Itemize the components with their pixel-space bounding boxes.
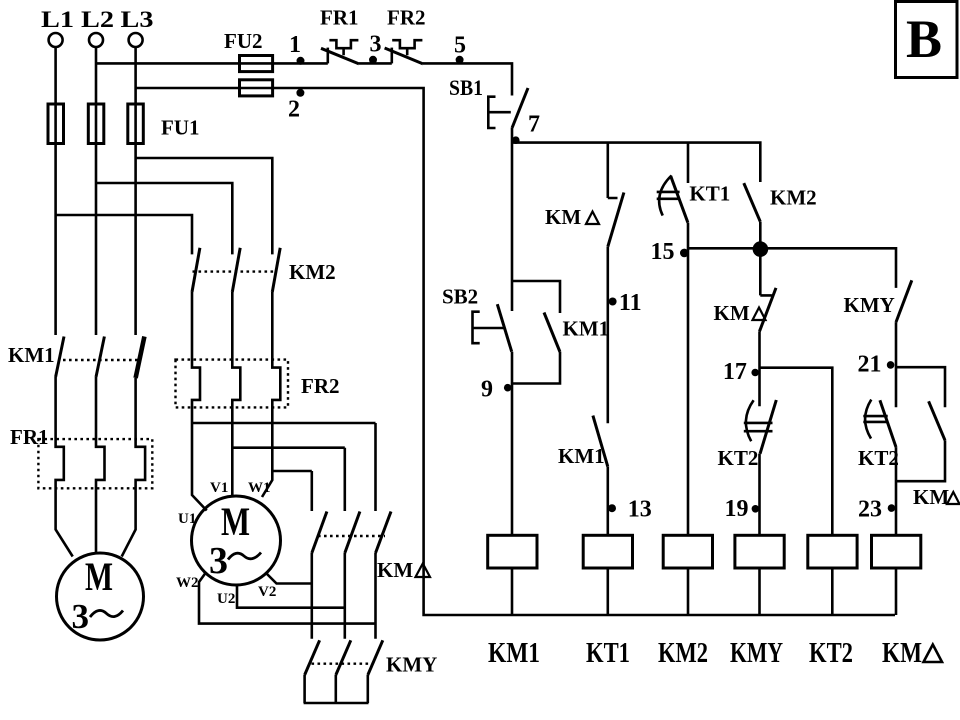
- node 15 dot: [680, 249, 689, 258]
- wire interlock to KM1 contact: [606, 247, 609, 424]
- contact KM-delta interlock blade (NC): [608, 193, 624, 247]
- wire KT1 contact to KM2 coil: [687, 223, 690, 536]
- contact KM1 holding blade: [544, 313, 560, 353]
- coil KT2: [808, 535, 857, 568]
- svg-text:9: 9: [481, 377, 493, 403]
- wire KT2 right contact to KM-delta coil: [895, 447, 898, 535]
- svg-text:3: 3: [72, 597, 90, 636]
- pushbutton SB2 rod: [473, 327, 505, 330]
- node 21 dot: [887, 361, 895, 369]
- contactor KM2 pole 1 blade: [192, 248, 200, 292]
- node 7 dot: [512, 136, 520, 144]
- svg-text:SB2: SB2: [442, 285, 478, 309]
- motor M2 tilde: [228, 553, 261, 560]
- motor M1 tilde: [90, 610, 123, 617]
- node 17 dot: [751, 369, 759, 377]
- contact KT1 delayed blade: [671, 176, 688, 223]
- svg-text:KM: KM: [714, 301, 750, 325]
- wire branch L1 to KM2 pole 1: [56, 215, 192, 254]
- svg-text:KT1: KT1: [689, 182, 730, 206]
- terminal L1: [49, 33, 63, 47]
- label KM-delta triangle (main contacts): [416, 564, 431, 578]
- node 1 dot: [297, 57, 305, 65]
- wire KM-delta interlock upper: [608, 143, 618, 198]
- coil KM2: [663, 535, 712, 568]
- svg-text:KM2: KM2: [658, 638, 708, 669]
- pushbutton SB2 actuator bracket: [473, 312, 480, 344]
- wire KM1 pole 1 to FR1 heater 1: [56, 377, 73, 557]
- wire motor U2 to KM-delta pole 2 lower: [237, 585, 345, 608]
- svg-text:L2: L2: [81, 7, 114, 32]
- wire L2 phase to FU2 fuse 1 and control rail: [96, 62, 328, 65]
- contactor KM1 pole 3 blade (bold): [136, 337, 145, 379]
- svg-text:KMY: KMY: [844, 293, 895, 317]
- svg-text:FR2: FR2: [387, 6, 426, 30]
- svg-text:SB1: SB1: [449, 75, 483, 100]
- svg-text:KM: KM: [882, 638, 922, 669]
- wire interlock 2 to node 17: [758, 331, 761, 406]
- wire star point bar: [304, 702, 369, 705]
- svg-text:FU1: FU1: [161, 116, 200, 140]
- svg-text:KM: KM: [913, 485, 949, 509]
- wire KM1 pole 2 to FR1 heater 2: [96, 377, 105, 553]
- wire KM2 contact to junction: [760, 222, 772, 296]
- terminal L3: [129, 33, 143, 47]
- svg-text:V1: V1: [210, 480, 228, 496]
- wire L3 column down to KM1 pole 3: [134, 47, 137, 335]
- fuse FU2 element 1: [240, 56, 273, 72]
- terminal L2: [89, 33, 103, 47]
- thermal contact FR1 element symbol: [329, 40, 358, 55]
- svg-text:W1: W1: [248, 480, 271, 496]
- svg-text:KT2: KT2: [858, 446, 899, 470]
- wire KM2 pole 3 to FR2 heater 3 and motor W1: [262, 292, 280, 497]
- svg-text:3: 3: [209, 540, 228, 582]
- wire node 21 branch to KM-delta parallel contact: [896, 367, 945, 407]
- contact KM-delta parallel blade: [929, 401, 945, 440]
- wire KT1 coil to bottom rail: [606, 568, 609, 615]
- svg-text:5: 5: [454, 33, 466, 59]
- label KM-delta parallel triangle: [947, 492, 960, 504]
- wire branch L2 to KM2 pole 2: [96, 183, 232, 254]
- pushbutton SB2 blade: [497, 304, 511, 352]
- contact KT2 delayed blade (left): [760, 400, 776, 454]
- wire node 3 segment: [359, 62, 392, 65]
- coil KM-delta: [872, 535, 921, 568]
- node 23 dot: [888, 504, 896, 512]
- wire KMY pole 2 lower: [334, 675, 337, 703]
- contact KMY (control) blade: [896, 280, 912, 322]
- wire KM2 pole 2 to FR2 heater 2 and motor V1: [232, 292, 240, 496]
- pushbutton SB1 actuator bracket: [488, 97, 495, 128]
- svg-text:B: B: [906, 9, 942, 69]
- svg-text:7: 7: [528, 112, 540, 138]
- contact KT2 delay bars (left): [744, 423, 773, 431]
- contact KT1 delay bars: [657, 192, 680, 199]
- wire control top rail: [512, 143, 760, 182]
- wire motor W2 to KM-delta pole 3 lower: [199, 573, 376, 624]
- svg-text:KMY: KMY: [386, 653, 437, 677]
- contact KT2 delay arc (left): [746, 400, 754, 441]
- KM-delta linkage dotted line: [318, 535, 385, 537]
- wire KM-delta pole 2 lower: [343, 553, 346, 639]
- svg-text:U2: U2: [217, 591, 235, 607]
- coil KMY: [735, 535, 784, 568]
- svg-text:KM1: KM1: [488, 638, 540, 669]
- svg-text:W2: W2: [176, 575, 199, 591]
- wire KM1 holding branch lower: [512, 352, 560, 384]
- contactor KMY pole 2 blade: [336, 640, 351, 675]
- label KM-delta interlock triangle: [586, 212, 599, 225]
- svg-text:KT2: KT2: [718, 446, 759, 470]
- svg-text:KM2: KM2: [770, 186, 817, 210]
- wire SB1 to node 7: [511, 128, 514, 311]
- wire KMY pole 3 lower: [366, 675, 369, 703]
- KM1 linkage dotted line: [63, 359, 139, 361]
- KM2 linkage dotted line: [193, 270, 275, 272]
- wire KM-delta parallel lower: [897, 440, 945, 481]
- wire delta link V1 to KM-delta pole 2: [232, 448, 344, 511]
- wire KMY coil to bottom rail: [758, 568, 761, 615]
- node 9 dot: [504, 384, 512, 392]
- contactor KMY pole 1 blade: [305, 640, 320, 675]
- contactor KM1 pole 1 blade: [56, 337, 64, 378]
- svg-text:FR1: FR1: [320, 6, 359, 30]
- coil KM1: [488, 535, 537, 568]
- svg-text:FU2: FU2: [224, 29, 263, 53]
- label KM-delta interlock 2 triangle: [753, 308, 766, 321]
- wire KMY contact to node 21: [895, 322, 898, 407]
- thermal relay FR2 dotted box: [176, 360, 289, 408]
- label KM-delta coil triangle: [924, 645, 943, 663]
- wire KM1 holding branch upper: [512, 281, 560, 313]
- thermal contact FR1 riser: [326, 48, 329, 64]
- contact KT1 delay arc: [659, 176, 671, 216]
- wire KM-delta coil to bottom rail: [895, 568, 898, 615]
- svg-text:KM1: KM1: [563, 317, 610, 341]
- wire KM2 coil to bottom rail: [687, 568, 690, 615]
- svg-text:M: M: [221, 499, 250, 544]
- wire KMY pole 1 lower: [303, 675, 306, 703]
- wire SB2 to KM1 coil: [511, 352, 514, 536]
- svg-text:13: 13: [628, 497, 652, 523]
- wire KM-delta pole 3 lower: [374, 553, 377, 639]
- node 5 dot: [456, 56, 464, 64]
- svg-text:2: 2: [288, 97, 300, 123]
- thermal contact FR2 element symbol: [392, 40, 422, 55]
- svg-text:KT1: KT1: [586, 638, 630, 669]
- svg-text:KM1: KM1: [558, 444, 605, 468]
- contact KM-delta interlock 2 blade (NC): [760, 288, 777, 331]
- svg-text:V2: V2: [258, 584, 276, 600]
- pushbutton SB1 rod: [489, 111, 511, 114]
- contact KT2 delay bars (right): [863, 416, 887, 422]
- thermal relay FR1 dotted box: [38, 439, 152, 488]
- fuse FU1 pole 3: [128, 104, 144, 144]
- wire KM-delta pole 1 lower: [310, 553, 313, 639]
- wire KT2 coil to bottom rail: [831, 568, 834, 615]
- wire KM1 pole 3 to FR1 heater 3: [122, 378, 145, 557]
- svg-text:KM1: KM1: [8, 343, 55, 367]
- contactor KM-delta main pole 1 blade: [312, 512, 327, 554]
- svg-text:L1: L1: [41, 7, 74, 32]
- svg-text:U1: U1: [178, 511, 196, 527]
- contactor KM2 pole 2 blade: [232, 248, 240, 292]
- wire delta link W1 to KM-delta pole 1: [272, 471, 312, 511]
- node 19 dot: [752, 505, 760, 513]
- contactor KM2 pole 3 blade: [272, 248, 280, 292]
- svg-text:KMY: KMY: [730, 638, 783, 669]
- wire L1 column down to KM1 pole 1: [54, 47, 57, 335]
- node 2 dot: [296, 89, 304, 97]
- wire KM1 coil to bottom rail: [511, 568, 514, 615]
- motor M2 circle: [192, 496, 281, 585]
- contactor KM-delta main pole 3 blade: [376, 512, 392, 554]
- pushbutton SB1 blade: [512, 88, 528, 128]
- thermal contact FR2 riser: [390, 48, 393, 64]
- motor M1 circle: [57, 553, 144, 640]
- svg-text:11: 11: [619, 290, 642, 316]
- fuse FU1 pole 2: [88, 104, 104, 144]
- coil KT1: [583, 535, 632, 568]
- wire KT1 contact branch upper: [687, 143, 690, 183]
- svg-text:FR2: FR2: [301, 374, 340, 398]
- svg-text:17: 17: [723, 359, 747, 385]
- contactor KM-delta main pole 2 blade: [345, 512, 360, 554]
- KMY linkage dotted line: [312, 663, 374, 665]
- svg-text:19: 19: [725, 496, 749, 522]
- contactor KMY pole 3 blade: [368, 640, 383, 675]
- svg-text:KM: KM: [377, 558, 413, 582]
- contact KT2 delay arc (right): [865, 400, 871, 439]
- thermal contact FR1 blade: [321, 48, 359, 64]
- wire motor V2 to KM-delta pole 1 lower: [267, 574, 312, 584]
- contact KM1 (to KT1 coil) blade: [593, 416, 608, 467]
- svg-text:21: 21: [858, 352, 882, 378]
- wire KM1 contact to KT1 coil: [606, 467, 609, 536]
- svg-text:KM2: KM2: [289, 260, 336, 284]
- wire node 17 branch to KT2 coil: [760, 368, 832, 536]
- wire delta link U1 to KM-delta pole 3: [192, 423, 376, 511]
- contact KM2 (control) blade: [744, 183, 761, 222]
- node 13 dot: [608, 504, 616, 512]
- fuse FU1 pole 1: [48, 104, 64, 144]
- svg-text:KM: KM: [545, 205, 581, 229]
- contactor KM1 pole 2 blade: [96, 337, 104, 378]
- contact KT2 delayed blade (right): [880, 400, 896, 447]
- svg-text:M: M: [85, 554, 113, 599]
- svg-text:KT2: KT2: [809, 638, 853, 669]
- svg-text:23: 23: [858, 497, 882, 523]
- wire L3 phase to FU2 fuse 2 and left control rail down to bottom rail: [136, 88, 895, 615]
- node 11 dot: [609, 298, 617, 306]
- svg-text:L3: L3: [121, 7, 154, 32]
- wire KM2 pole 1 to FR2 heater 1 and motor U1: [192, 292, 207, 511]
- wire KT2 contact to KMY coil: [758, 454, 761, 536]
- svg-text:15: 15: [651, 239, 675, 265]
- wire node 5 segment turning down to SB1: [423, 63, 512, 95]
- svg-text:3: 3: [370, 32, 382, 58]
- wire node 15 rail to KMY branch: [688, 248, 896, 288]
- svg-text:FR1: FR1: [10, 425, 49, 449]
- junction big dot: [753, 241, 769, 257]
- figure label B box: [896, 2, 958, 78]
- thermal contact FR2 blade: [385, 48, 423, 64]
- wire L2 column down to KM1 pole 2: [95, 47, 98, 335]
- svg-text:1: 1: [289, 32, 301, 58]
- wire branch L3 to KM2 pole 3: [136, 158, 273, 254]
- fuse FU2 element 2: [240, 80, 273, 96]
- node 3 dot: [369, 56, 377, 64]
